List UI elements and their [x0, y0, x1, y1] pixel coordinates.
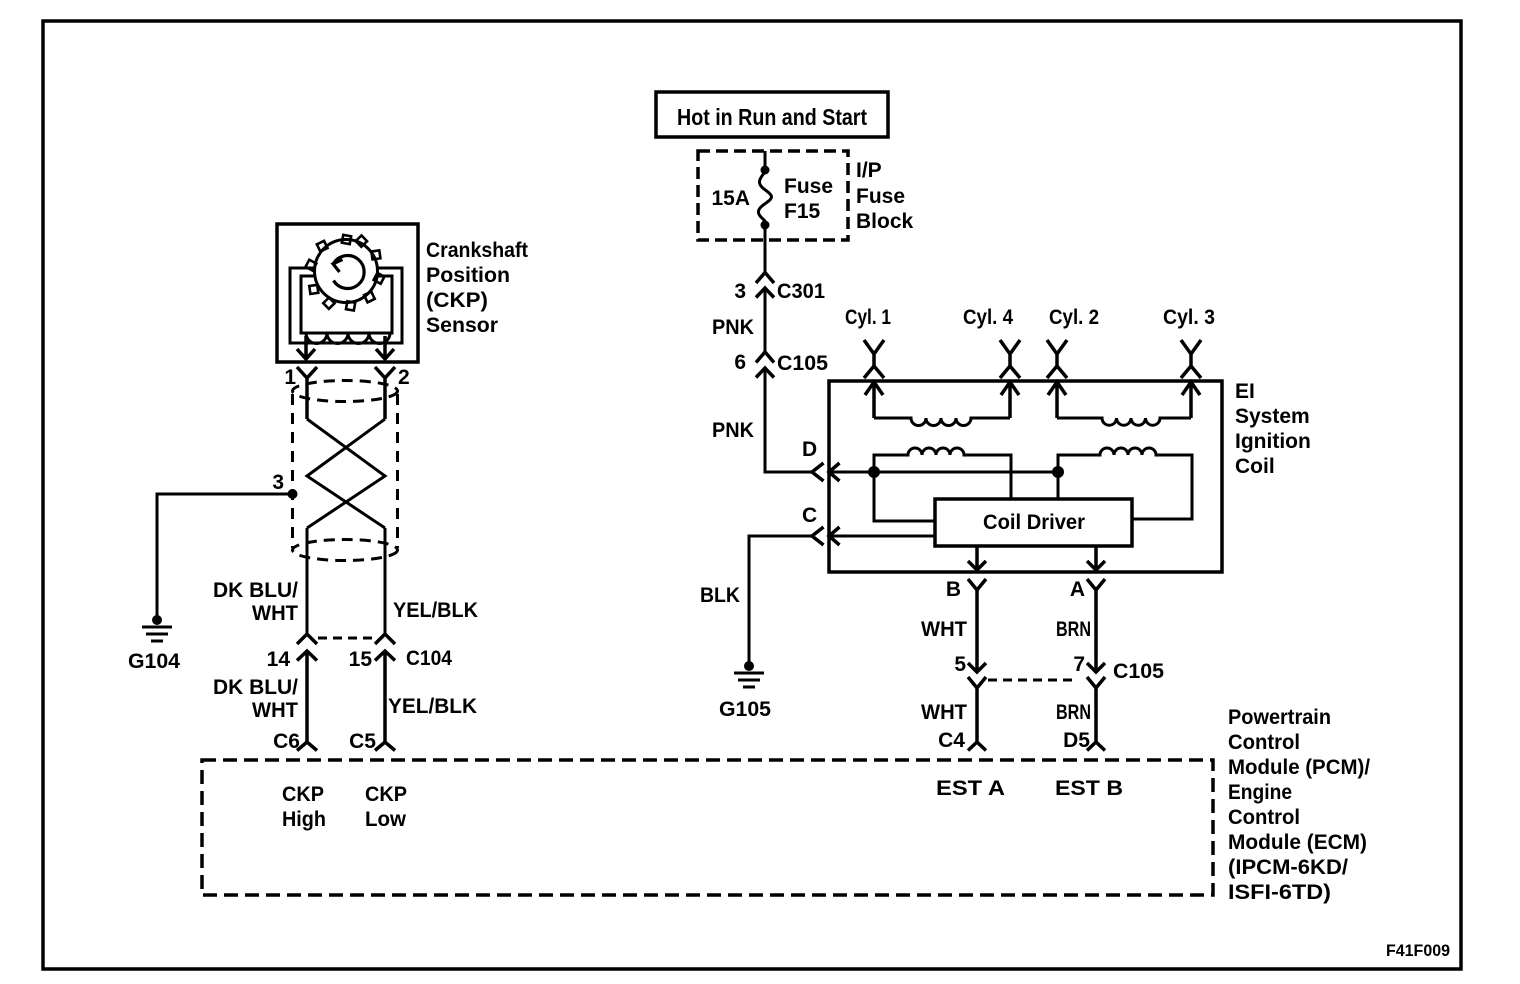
- svg-text:Engine: Engine: [1228, 781, 1292, 804]
- sensor reluctor wheel circle: [315, 240, 378, 303]
- svg-text:2: 2: [398, 366, 410, 389]
- svg-text:BLK: BLK: [700, 584, 740, 607]
- wheel teeth: [305, 235, 384, 311]
- svg-text:Module (ECM): Module (ECM): [1228, 831, 1367, 854]
- cyl 2 connector: [1047, 340, 1067, 378]
- svg-text:G105: G105: [719, 698, 771, 721]
- connector C105 pin 5 female: [968, 677, 986, 742]
- coil output arrow cyl2: [1048, 382, 1066, 418]
- svg-text:PNK: PNK: [712, 419, 754, 442]
- svg-text:WHT: WHT: [252, 602, 298, 625]
- C105 dashed connector link: [988, 679, 1072, 682]
- svg-text:C105: C105: [1113, 660, 1164, 683]
- sensor output arrow 1: [297, 336, 315, 359]
- svg-text:15A: 15A: [711, 187, 750, 210]
- svg-text:Block: Block: [856, 210, 914, 233]
- C line to coil driver: [829, 535, 935, 538]
- PCM dashed box: [202, 760, 1213, 895]
- svg-text:WHT: WHT: [921, 618, 967, 641]
- svg-text:Sensor: Sensor: [426, 314, 498, 337]
- svg-text:D: D: [802, 438, 817, 461]
- PCM entry CKP Low: [375, 742, 395, 751]
- shield bottom ellipse: [293, 540, 398, 561]
- PCM entry CKP High: [297, 742, 317, 751]
- ground G105: [744, 661, 754, 671]
- svg-text:CKP: CKP: [365, 783, 407, 806]
- twisted pair wire 2 lower: [384, 528, 387, 634]
- pin B female: [968, 579, 986, 672]
- primary left bottom leg: [874, 472, 935, 521]
- svg-text:(CKP): (CKP): [426, 289, 488, 312]
- svg-text:5: 5: [954, 653, 966, 676]
- twisted pair wire 2: [307, 419, 385, 528]
- svg-text:Cyl. 4: Cyl. 4: [963, 306, 1013, 329]
- svg-text:B: B: [946, 578, 961, 601]
- driver output arrow B: [968, 546, 986, 570]
- svg-text:BRN: BRN: [1056, 701, 1091, 724]
- svg-text:Crankshaft: Crankshaft: [426, 239, 528, 262]
- svg-text:1: 1: [284, 366, 296, 389]
- primary winding left loop: [874, 448, 1011, 499]
- svg-text:Cyl. 3: Cyl. 3: [1163, 306, 1215, 329]
- connector C104 pin 14 male arrow: [297, 651, 317, 742]
- svg-text:PNK: PNK: [712, 316, 754, 339]
- primary right leg to driver: [1057, 472, 1060, 499]
- svg-text:F41F009: F41F009: [1386, 941, 1450, 960]
- svg-text:G104: G104: [128, 650, 180, 673]
- svg-text:7: 7: [1073, 653, 1085, 676]
- shield left side: [291, 394, 294, 548]
- svg-text:EI: EI: [1235, 380, 1255, 403]
- svg-text:Powertrain: Powertrain: [1228, 706, 1331, 729]
- connector C301 pin 3 (female half): [756, 273, 774, 284]
- pin D male arrow: [829, 463, 840, 481]
- sensor inner rect outer: [290, 268, 402, 343]
- wire PNK down to pin D: [765, 368, 812, 472]
- svg-text:Module (PCM)/: Module (PCM)/: [1228, 756, 1370, 779]
- sensor inner rect inner: [301, 276, 392, 333]
- svg-text:Fuse: Fuse: [784, 175, 833, 198]
- svg-text:Control: Control: [1228, 806, 1300, 829]
- svg-text:Coil Driver: Coil Driver: [983, 511, 1085, 534]
- sensor pickup coil: [306, 333, 390, 344]
- svg-text:6: 6: [734, 351, 746, 374]
- wire fuse to C301: [764, 229, 767, 272]
- svg-text:EST A: EST A: [936, 777, 1005, 800]
- sensor pin 2 female: [375, 367, 395, 419]
- twisted pair wire 1: [307, 419, 385, 528]
- C104 dashed connector link: [318, 637, 375, 640]
- svg-text:YEL/BLK: YEL/BLK: [388, 695, 477, 718]
- connector C105 pin 5 male arrow down: [968, 663, 986, 672]
- svg-text:Position: Position: [426, 264, 510, 287]
- secondary winding right (cyl2-cyl3): [1057, 418, 1191, 425]
- pin C male arrow: [829, 527, 840, 545]
- svg-text:15: 15: [349, 648, 373, 671]
- sensor pin 1 female: [297, 367, 317, 419]
- driver output arrow A: [1087, 546, 1105, 570]
- cyl 1 connector: [864, 340, 884, 378]
- coil driver box: [935, 499, 1132, 546]
- svg-text:Hot in Run and Start: Hot in Run and Start: [677, 104, 867, 130]
- D bus line: [829, 471, 1058, 474]
- svg-text:3: 3: [272, 471, 284, 494]
- secondary winding left (cyl1-cyl4): [874, 418, 1010, 426]
- svg-text:Control: Control: [1228, 731, 1300, 754]
- svg-text:C: C: [802, 504, 817, 527]
- connector C105 pin 6 (male half, arrow up): [756, 368, 774, 378]
- svg-text:C105: C105: [777, 352, 828, 375]
- svg-text:C104: C104: [406, 647, 452, 670]
- connector C104 pin 14 female: [297, 634, 317, 644]
- svg-text:EST B: EST B: [1055, 777, 1123, 800]
- svg-text:WHT: WHT: [252, 699, 298, 722]
- EI system ignition coil box: [829, 381, 1222, 572]
- svg-text:System: System: [1235, 405, 1310, 428]
- pin D female half: [812, 463, 824, 481]
- CKP sensor box: [277, 224, 418, 362]
- svg-text:Coil: Coil: [1235, 455, 1275, 478]
- svg-text:F15: F15: [784, 200, 821, 223]
- cyl 3 connector: [1181, 340, 1201, 378]
- wheel rotation arrow: [334, 256, 365, 289]
- svg-text:DK BLU/: DK BLU/: [213, 676, 298, 699]
- coil output arrow cyl4: [1001, 382, 1019, 418]
- pin A female: [1087, 579, 1105, 672]
- svg-text:I/P: I/P: [856, 159, 882, 182]
- svg-text:CKP: CKP: [282, 783, 324, 806]
- svg-text:Ignition: Ignition: [1235, 430, 1311, 453]
- svg-text:C4: C4: [938, 729, 965, 752]
- shield drain wire to G104: [157, 494, 293, 620]
- svg-text:Fuse: Fuse: [856, 185, 905, 208]
- svg-text:YEL/BLK: YEL/BLK: [393, 599, 478, 622]
- svg-text:BRN: BRN: [1056, 618, 1091, 641]
- shield node 3 dot: [288, 489, 298, 499]
- connector C104 pin 15 male arrow: [375, 651, 395, 742]
- svg-text:C5: C5: [349, 730, 376, 753]
- shield right side: [396, 394, 399, 548]
- svg-text:High: High: [282, 808, 326, 831]
- title box Hot in Run and Start: [656, 92, 888, 137]
- sensor output arrow 2: [376, 336, 394, 359]
- cyl 4 connector: [1000, 340, 1020, 378]
- svg-text:WHT: WHT: [921, 701, 967, 724]
- PCM entry EST A: [968, 742, 986, 751]
- connector C105 pin 7 female: [1087, 677, 1105, 742]
- connector C104 pin 15 female: [375, 634, 395, 644]
- pin C female half: [812, 527, 824, 545]
- svg-text:DK BLU/: DK BLU/: [213, 579, 298, 602]
- connector C105 pin 6 (female half): [756, 352, 774, 363]
- junction dot left primary: [868, 466, 880, 478]
- coil output arrow cyl1: [865, 382, 883, 418]
- primary winding right loop: [1058, 448, 1192, 519]
- svg-text:C301: C301: [777, 280, 825, 303]
- svg-text:3: 3: [734, 280, 746, 303]
- coil output arrow cyl3: [1182, 382, 1200, 418]
- connector C105 pin 7 male arrow down: [1087, 663, 1105, 672]
- svg-text:D5: D5: [1063, 729, 1090, 752]
- svg-text:Cyl. 1: Cyl. 1: [845, 306, 891, 329]
- connector C301 pin 3 (male half, arrow up): [756, 288, 774, 298]
- ground G104: [152, 615, 162, 625]
- fuse F15 (squiggle with end dots): [761, 166, 770, 175]
- svg-text:Cyl. 2: Cyl. 2: [1049, 306, 1099, 329]
- BLK wire to pin C: [749, 536, 812, 666]
- svg-text:(IPCM-6KD/: (IPCM-6KD/: [1228, 856, 1348, 879]
- junction dot right primary: [1052, 466, 1064, 478]
- svg-text:Low: Low: [365, 808, 407, 831]
- I/P fuse block (dashed box): [698, 151, 848, 240]
- svg-text:14: 14: [267, 648, 291, 671]
- svg-text:A: A: [1070, 578, 1085, 601]
- svg-text:C6: C6: [273, 730, 300, 753]
- twisted pair wire 1 lower: [306, 528, 309, 634]
- svg-text:ISFI-6TD): ISFI-6TD): [1228, 881, 1331, 904]
- shield top ellipse: [293, 381, 398, 402]
- wire stub into fuse block: [764, 151, 767, 170]
- PCM entry EST B: [1087, 742, 1105, 751]
